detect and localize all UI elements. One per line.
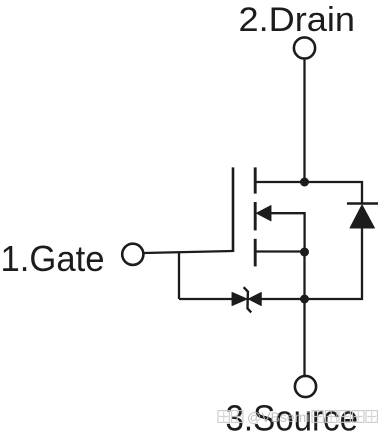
wire zener to source node: [261, 298, 305, 300]
node drain junction dot: [300, 178, 309, 187]
wire drain contact to channel: [255, 181, 305, 183]
wire gate lead: [144, 251, 233, 253]
node source junction dot: [300, 248, 309, 257]
wire source contact to channel: [255, 250, 305, 252]
MOSFET Q1 gate bar: [232, 167, 235, 252]
MOSFET Q1 body arrow (points into channel): [257, 206, 272, 221]
svg-text:@VBsemi: @VBsemi: [247, 409, 309, 425]
MOSFET Q1 channel dash (body region): [254, 202, 257, 230]
zener D2 left triangle: [232, 292, 247, 305]
wire diode branch bottom: [305, 227, 363, 299]
zener D2 right triangle: [248, 292, 261, 305]
drain terminal circle: [294, 37, 315, 58]
wire gate branch to zener: [179, 298, 233, 300]
body diode D1 cathode bar: [347, 202, 378, 205]
wire source node down to terminal: [303, 299, 305, 376]
body diode D1 triangle (anode, points up): [350, 205, 375, 228]
gate terminal circle: [122, 244, 143, 265]
svg-text:1.Gate: 1.Gate: [1, 238, 105, 279]
wire drain vertical: [303, 60, 305, 182]
svg-text:2.Drain: 2.Drain: [239, 1, 356, 39]
watermark 知乎 @VBsemi... (drawn as faint glyph-like marks): [218, 409, 377, 425]
wire source vertical between nodes: [303, 252, 305, 299]
wire gate branch vertical: [178, 252, 180, 299]
node source/zener junction dot: [300, 295, 309, 304]
wire diode branch top: [305, 182, 363, 203]
MOSFET Q1 channel dash (source region): [254, 239, 257, 267]
source terminal circle: [295, 376, 316, 397]
MOSFET Q1 channel dash (drain region): [254, 167, 257, 193]
zener D2 center bar with hooks: [244, 287, 252, 312]
wire body-arrow line and elbow down to source node: [271, 213, 305, 252]
